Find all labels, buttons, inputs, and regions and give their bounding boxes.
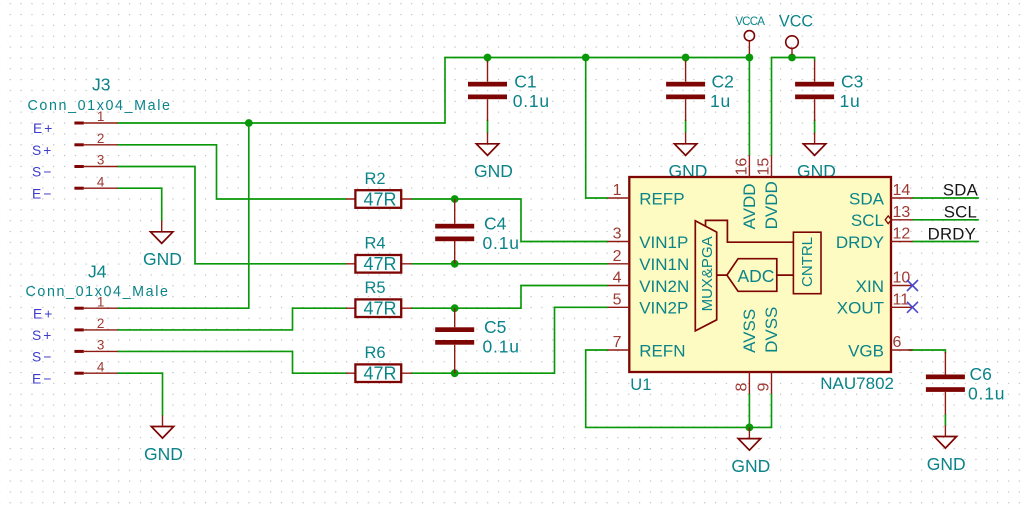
svg-text:1u: 1u	[840, 91, 861, 111]
pin 9 DVSS (U1 bottom)	[756, 307, 782, 394]
power symbol GND (C3)	[797, 133, 836, 182]
svg-text:S+: S+	[32, 328, 53, 343]
svg-text:14: 14	[893, 182, 911, 199]
svg-text:16: 16	[733, 158, 750, 176]
pin 5 VIN2P (U1 left)	[608, 291, 689, 317]
power symbol GND (C1)	[474, 133, 513, 182]
junction VCCA/AVDD	[746, 54, 754, 62]
pin 15 DVDD (U1 top)	[756, 155, 782, 229]
power symbol GND (U1 AVSS/DVSS)	[731, 427, 770, 476]
pin 4 of J4	[74, 359, 117, 374]
pin 2 of J3	[74, 131, 117, 146]
resistor R4 47R	[346, 235, 412, 275]
svg-text:DRDY: DRDY	[836, 233, 884, 252]
svg-text:DRDY: DRDY	[928, 225, 976, 244]
wire E- J3 to GND	[118, 188, 162, 220]
svg-text:0.1u: 0.1u	[483, 337, 520, 357]
svg-text:C4: C4	[484, 213, 507, 233]
pin 3 of J3	[74, 153, 117, 168]
svg-text:AVDD: AVDD	[740, 183, 759, 229]
wire S- J4 to R6	[118, 351, 346, 373]
svg-text:10: 10	[893, 270, 911, 287]
wire E+ vertical J3-J4	[248, 123, 250, 308]
wire DVDD rail	[772, 58, 815, 156]
svg-text:SCL: SCL	[944, 202, 977, 221]
no-connect X at XOUT	[907, 302, 918, 313]
svg-text:13: 13	[893, 204, 911, 221]
svg-text:S−: S−	[32, 165, 53, 180]
svg-text:VGB: VGB	[848, 341, 884, 360]
svg-text:1u: 1u	[710, 91, 731, 111]
wire C1 top pin wire	[487, 58, 489, 63]
wire SDA wire	[913, 197, 979, 199]
wire E+ net J3 pin1 to rail riser	[118, 122, 445, 124]
junction C1 top	[484, 54, 492, 62]
svg-text:12: 12	[893, 226, 911, 243]
junction VCC/DVDD	[788, 54, 796, 62]
svg-text:47R: 47R	[363, 254, 396, 274]
wire C3 bottom wire	[814, 120, 816, 133]
wire E- J4 to GND	[118, 373, 163, 415]
pin 7 REFN (U1 left)	[608, 334, 686, 360]
no-connect X at XIN	[907, 280, 918, 291]
svg-text:J4: J4	[88, 262, 107, 282]
pin 1 of J3	[74, 109, 117, 124]
svg-text:11: 11	[893, 291, 910, 308]
capacitor C6	[926, 364, 1005, 404]
svg-text:47R: 47R	[363, 299, 396, 319]
pin 16 AVDD (U1 top)	[733, 155, 759, 229]
svg-text:MUX&PGA: MUX&PGA	[699, 236, 716, 311]
pin 13 SCL (U1 right)	[851, 204, 913, 230]
svg-text:2: 2	[97, 131, 105, 146]
svg-text:15: 15	[756, 158, 773, 176]
U1 internal block ADC	[727, 259, 777, 292]
svg-text:E+: E+	[33, 306, 54, 321]
svg-text:C6: C6	[970, 364, 992, 384]
svg-text:REFN: REFN	[639, 341, 685, 360]
pin 3 VIN1P (U1 left)	[608, 226, 689, 252]
svg-text:VCC: VCC	[779, 12, 813, 30]
wire R5 out to VIN2N	[412, 286, 608, 309]
power symbol VCCA	[735, 16, 765, 54]
svg-text:XOUT: XOUT	[837, 299, 884, 318]
wire riser to AVDD rail	[444, 58, 446, 124]
wire SCL wire	[913, 219, 979, 221]
capacitor C1	[468, 71, 550, 111]
junction GND node U1	[746, 424, 754, 432]
svg-text:VIN1N: VIN1N	[639, 255, 689, 274]
resistor R2 47R	[346, 170, 412, 210]
pin 2 VIN1N (U1 left)	[608, 248, 690, 274]
svg-text:C5: C5	[484, 317, 506, 337]
wire AVSS drop	[748, 394, 750, 428]
wire S- J3 to R4	[118, 167, 346, 264]
svg-text:GND: GND	[143, 249, 182, 269]
svg-text:9: 9	[756, 383, 773, 392]
connector J3 Conn_01x04_Male	[28, 75, 172, 190]
op-amp/IC U1 NAU7802 body	[629, 177, 894, 394]
pin 1 of J4	[74, 294, 117, 309]
svg-text:GND: GND	[927, 454, 966, 474]
U1 internal block CNTRL	[793, 232, 821, 294]
wire rail to REFP	[586, 58, 608, 199]
junction R2-C4	[451, 195, 459, 203]
svg-text:VCCA: VCCA	[735, 16, 765, 28]
svg-text:5: 5	[613, 291, 622, 308]
svg-text:R4: R4	[365, 235, 386, 253]
wire REFN to GND run	[586, 350, 772, 427]
svg-text:C1: C1	[514, 71, 536, 91]
svg-text:NAU7802: NAU7802	[820, 374, 894, 393]
svg-text:4: 4	[613, 270, 622, 287]
pin 3 of J4	[74, 338, 117, 353]
junction E+ tap	[245, 119, 253, 127]
wire C6 bottom wire	[944, 415, 946, 426]
power symbol GND (J4 E-)	[144, 415, 183, 464]
junction REFP riser	[582, 54, 590, 62]
wire AVDD top rail	[445, 57, 749, 59]
wire VGB to C6	[909, 350, 946, 353]
pin 13 SCL input marker	[885, 216, 891, 224]
svg-text:1: 1	[97, 109, 105, 124]
svg-text:R5: R5	[365, 279, 386, 297]
svg-text:R6: R6	[365, 344, 386, 362]
svg-text:0.1u: 0.1u	[968, 384, 1005, 404]
resistor R5 47R	[346, 279, 412, 319]
svg-text:SDA: SDA	[943, 181, 979, 200]
svg-text:1: 1	[97, 294, 105, 309]
capacitor C3	[795, 71, 863, 111]
pin 12 DRDY (U1 right)	[836, 226, 913, 252]
svg-text:VIN1P: VIN1P	[639, 233, 688, 252]
wire C1 bottom wire	[487, 120, 489, 133]
wire R4 out to VIN1N	[412, 263, 608, 265]
svg-text:GND: GND	[144, 444, 183, 464]
wire DRDY wire	[913, 241, 979, 243]
capacitor C2	[666, 71, 734, 111]
svg-text:47R: 47R	[363, 364, 396, 384]
junction R5-C5	[451, 304, 459, 312]
svg-text:CNTRL: CNTRL	[799, 237, 816, 287]
svg-text:VIN2N: VIN2N	[639, 277, 689, 296]
svg-text:3: 3	[97, 338, 105, 353]
svg-text:8: 8	[733, 383, 750, 392]
pin 10 XIN (U1 right)	[856, 270, 913, 296]
svg-text:C2: C2	[712, 71, 734, 91]
power symbol VCC	[779, 12, 813, 55]
svg-text:1: 1	[613, 182, 622, 199]
svg-text:0.1u: 0.1u	[483, 233, 520, 253]
wire S+ J4 to R5	[118, 308, 346, 330]
wire C2 top pin wire	[685, 58, 687, 63]
svg-text:R2: R2	[365, 170, 386, 188]
pin 1 REFP (U1 left)	[608, 182, 685, 208]
junction R4-C4	[451, 260, 459, 268]
svg-text:C3: C3	[841, 71, 863, 91]
svg-text:XIN: XIN	[856, 277, 884, 296]
svg-text:47R: 47R	[363, 189, 396, 209]
svg-text:6: 6	[893, 334, 902, 351]
svg-text:3: 3	[97, 153, 105, 168]
svg-text:S+: S+	[32, 143, 53, 158]
wire DVSS drop	[771, 394, 773, 428]
svg-text:E−: E−	[32, 186, 53, 201]
resistor R6 47R	[346, 344, 412, 384]
pin 11 XOUT (U1 right)	[837, 291, 913, 317]
svg-text:DVSS: DVSS	[762, 307, 781, 353]
svg-text:SCL: SCL	[851, 211, 884, 230]
pin 2 of J4	[74, 316, 117, 331]
wire J4 E+ row	[118, 307, 249, 309]
svg-text:E+: E+	[33, 121, 54, 136]
junction C2 top	[682, 54, 690, 62]
svg-text:2: 2	[613, 248, 622, 265]
svg-text:4: 4	[97, 359, 105, 374]
svg-text:S−: S−	[32, 350, 53, 365]
U1 internal connection lines	[706, 220, 794, 275]
svg-text:GND: GND	[474, 161, 513, 181]
capacitor C5	[435, 317, 520, 357]
wire R6 out to VIN2P	[412, 307, 608, 373]
wire rail drop to AVDD pin16	[748, 58, 750, 156]
wire S+ J3 to R2	[118, 145, 346, 199]
svg-text:0.1u: 0.1u	[513, 91, 550, 111]
svg-text:GND: GND	[731, 456, 770, 476]
pin 6 VGB (U1 right)	[848, 334, 913, 360]
capacitor pin leads C1 C2 C3 C4 C5 C6	[455, 61, 946, 415]
wire R2 out to VIN1P	[412, 199, 608, 242]
junction R6-C5	[451, 369, 459, 377]
svg-text:DVDD: DVDD	[762, 181, 781, 229]
power symbol GND (J3 E-)	[143, 221, 182, 270]
svg-text:3: 3	[613, 226, 622, 243]
svg-text:SDA: SDA	[849, 189, 885, 208]
U1 internal block MUX&PGA	[695, 221, 716, 331]
svg-text:J3: J3	[92, 75, 110, 95]
pin 8 AVSS (U1 bottom)	[733, 309, 759, 394]
svg-text:4: 4	[97, 174, 105, 189]
svg-text:ADC: ADC	[738, 266, 775, 286]
svg-text:7: 7	[613, 334, 622, 351]
svg-text:VIN2P: VIN2P	[639, 299, 688, 318]
capacitor C4	[435, 213, 520, 253]
pin 14 SDA (U1 right)	[849, 182, 913, 208]
wire C2 bottom wire	[685, 120, 687, 133]
svg-text:E−: E−	[32, 371, 53, 386]
power symbol GND (C6)	[927, 425, 966, 474]
pin 4 of J3	[74, 174, 117, 189]
svg-text:REFP: REFP	[639, 189, 684, 208]
svg-text:U1: U1	[630, 376, 651, 394]
power symbol GND (C2)	[669, 133, 708, 182]
pin 4 VIN2N (U1 left)	[608, 270, 690, 296]
connector J4 Conn_01x04_Male	[26, 262, 170, 375]
svg-text:2: 2	[97, 316, 105, 331]
svg-text:AVSS: AVSS	[740, 309, 759, 353]
